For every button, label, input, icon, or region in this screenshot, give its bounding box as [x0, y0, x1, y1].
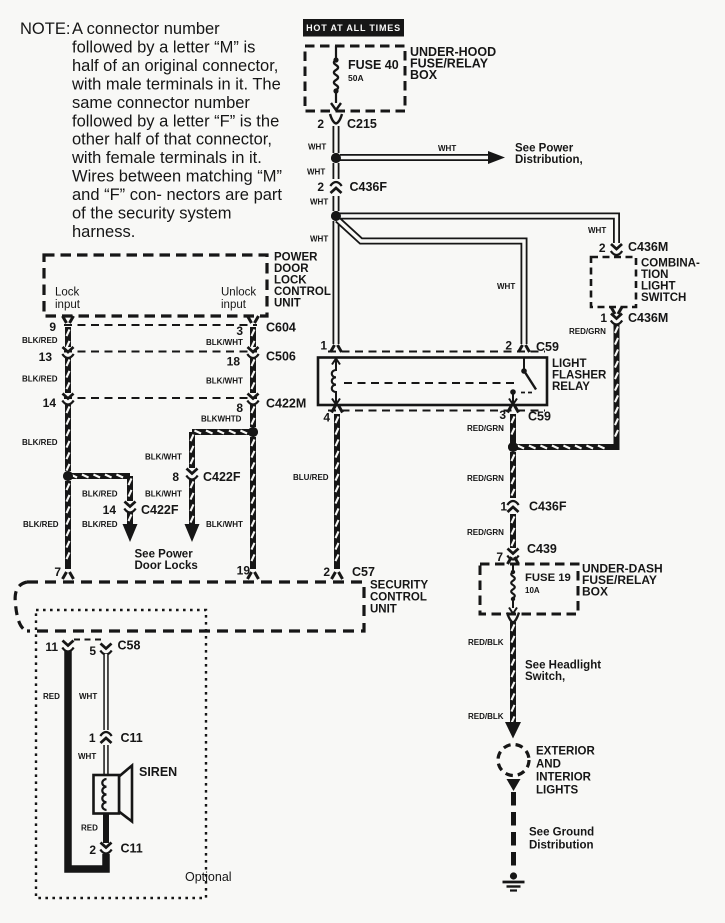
connector C422F (pin 14): [124, 502, 135, 513]
svg-text:C422M: C422M: [266, 397, 306, 411]
svg-text:half of an original connector,: half of an original connector,: [72, 57, 278, 75]
svg-text:10A: 10A: [525, 586, 540, 595]
connector row line C58: [74, 639, 101, 641]
svg-text:UNIT: UNIT: [274, 298, 301, 310]
see power door locks note: [135, 549, 198, 573]
svg-text:C436F: C436F: [350, 180, 388, 194]
svg-text:LIGHT: LIGHT: [552, 358, 587, 370]
svg-text:9: 9: [49, 320, 56, 334]
wire RED/GRN comb switch to junction: [513, 324, 618, 449]
exterior and interior lights name: [536, 746, 595, 797]
svg-text:RED/GRN: RED/GRN: [569, 327, 606, 336]
svg-text:Optional: Optional: [185, 870, 232, 884]
relay coil element: [332, 358, 340, 405]
under-hood fuse/relay box: [305, 46, 405, 111]
wire feet pin 19: [248, 572, 259, 579]
connector C436M (pin 1): [611, 314, 622, 325]
connector below under-dash box: [507, 613, 519, 623]
relay internal dashed link: [344, 382, 515, 384]
wire BLK/RED pin9 to pin13: [67, 327, 70, 348]
svg-text:and “F” con- nectors are part: and “F” con- nectors are part: [72, 186, 282, 204]
connector C506 right: [247, 347, 258, 358]
svg-text:RED: RED: [43, 692, 60, 701]
svg-text:LIGHTS: LIGHTS: [536, 785, 578, 797]
svg-text:2: 2: [505, 339, 512, 353]
svg-text:BLK/RED: BLK/RED: [22, 438, 58, 447]
note text block: [20, 20, 282, 241]
wire WHT to power distribution: [340, 154, 489, 161]
under-dash fuse/relay box: [480, 564, 578, 614]
svg-text:See Headlight: See Headlight: [525, 660, 601, 672]
svg-text:Distribution: Distribution: [529, 840, 594, 852]
svg-text:BLK/RED: BLK/RED: [22, 336, 58, 345]
svg-text:1: 1: [89, 731, 96, 745]
svg-text:BLK/WHT: BLK/WHT: [145, 453, 182, 462]
svg-text:BOX: BOX: [410, 68, 438, 82]
svg-text:C436M: C436M: [628, 240, 668, 254]
siren horn: [119, 766, 132, 822]
connector row line C506: [64, 351, 257, 353]
svg-text:POWER: POWER: [274, 252, 318, 264]
svg-text:UNIT: UNIT: [370, 604, 397, 616]
junction node RED/GRN: [508, 442, 518, 452]
connector row line C59 top: [328, 351, 545, 353]
svg-text:DOOR: DOOR: [274, 263, 309, 275]
svg-text:3: 3: [499, 408, 506, 422]
wire feet at flasher pin 1: [331, 345, 342, 352]
svg-text:with female terminals in it.: with female terminals in it.: [71, 149, 262, 167]
svg-text:BOX: BOX: [582, 585, 608, 599]
under-hood box name: [410, 45, 496, 82]
wire feet at flasher pin 2: [519, 345, 530, 352]
connector C215: [330, 114, 342, 124]
wire WHT C436F to junction 2: [333, 196, 340, 211]
connector C11 (pin 2): [100, 843, 111, 854]
svg-text:14: 14: [103, 503, 117, 517]
svg-text:WHT: WHT: [588, 226, 606, 235]
wire BLK/RED branch to C422F: [68, 475, 130, 478]
svg-text:2: 2: [89, 843, 96, 857]
svg-text:4: 4: [323, 411, 330, 425]
svg-text:CONTROL: CONTROL: [274, 286, 331, 298]
svg-text:C59: C59: [536, 340, 559, 354]
svg-text:C436F: C436F: [529, 500, 567, 514]
wire RED/GRN junction to C436F: [512, 452, 515, 498]
svg-text:harness.: harness.: [72, 223, 135, 241]
svg-text:C436M: C436M: [628, 311, 668, 325]
wire feet at comb switch pin 1: [611, 307, 622, 314]
svg-text:RED/GRN: RED/GRN: [467, 424, 504, 433]
hot at all times label box: [303, 19, 404, 37]
arrowhead below lights circle: [507, 779, 521, 791]
svg-text:2: 2: [317, 180, 324, 194]
svg-text:See Power: See Power: [515, 143, 574, 155]
connector C506 left: [62, 347, 73, 358]
svg-text:RED/GRN: RED/GRN: [467, 528, 504, 537]
svg-text:3: 3: [236, 324, 243, 338]
see headlight switch note: [525, 660, 601, 684]
junction node WHT lower overdraw: [331, 211, 341, 221]
connector C436F (RED/GRN): [507, 501, 518, 512]
svg-text:other half of that connector,: other half of that connector,: [72, 131, 272, 149]
svg-text:11: 11: [45, 640, 58, 654]
unlock input label: [221, 287, 256, 312]
svg-text:Switch,: Switch,: [525, 671, 565, 683]
svg-text:C604: C604: [266, 321, 296, 335]
svg-text:BLK/WHT: BLK/WHT: [206, 338, 243, 347]
wire feet pin 2 C57: [332, 572, 343, 579]
svg-text:with male terminals in it. The: with male terminals in it. The: [71, 75, 281, 93]
siren coil: [102, 779, 106, 810]
wire BLK/RED pin14 to junction: [67, 404, 70, 471]
svg-text:7: 7: [496, 550, 503, 564]
junction node WHT lower: [331, 211, 341, 221]
under-dash box name: [582, 562, 663, 599]
arrowhead to power door locks right: [185, 524, 200, 542]
svg-text:COMBINA-: COMBINA-: [641, 258, 700, 270]
wire RED siren to C11: [103, 813, 109, 843]
svg-text:BLK/RED: BLK/RED: [22, 375, 58, 384]
wire feet pin 9: [63, 316, 74, 323]
connector C422M left: [62, 394, 73, 405]
connector C422M right: [247, 394, 258, 405]
svg-text:2: 2: [323, 565, 330, 579]
see power distribution note: [515, 143, 583, 167]
combination light switch box: [591, 257, 636, 307]
arrowhead to exterior lights: [505, 722, 521, 739]
svg-text:INTERIOR: INTERIOR: [536, 772, 592, 784]
svg-text:LIGHT: LIGHT: [641, 281, 676, 293]
svg-text:LOCK: LOCK: [274, 275, 307, 287]
connector row line C604: [64, 324, 257, 326]
svg-text:BLKWHTD: BLKWHTD: [201, 415, 242, 424]
exterior and interior lights node: [498, 745, 529, 776]
junction node BLK/RED overdraw: [63, 471, 73, 481]
wire WHT to combination light switch: [336, 216, 617, 243]
junction node BLK/RED: [63, 471, 73, 481]
connector C422F (pin 8): [186, 469, 197, 480]
svg-text:RED/GRN: RED/GRN: [467, 474, 504, 483]
junction node BLK/WHT overdraw: [248, 427, 258, 437]
svg-text:Unlock: Unlock: [221, 287, 256, 299]
relay switch element: [509, 358, 536, 405]
svg-text:EXTERIOR: EXTERIOR: [536, 746, 595, 758]
wire feet pin 7: [63, 572, 74, 579]
wire BLK/WHT branch to C422F: [192, 431, 253, 434]
connector C436F (wire A): [330, 182, 341, 193]
svg-text:same connector number: same connector number: [72, 94, 250, 112]
connector C58 pin 11: [62, 641, 73, 652]
siren body: [94, 775, 120, 814]
wire BLU/RED pin4 to C57: [336, 414, 339, 569]
optional equipment dotted box: [36, 610, 206, 898]
svg-text:Door Locks: Door Locks: [135, 560, 198, 572]
combination light switch name: [641, 258, 700, 305]
lock input label: [55, 287, 81, 312]
svg-text:C439: C439: [527, 542, 557, 556]
svg-text:C422F: C422F: [203, 470, 241, 484]
svg-text:BLK/RED: BLK/RED: [23, 520, 59, 529]
security control unit box: [27, 582, 364, 631]
svg-text:C422F: C422F: [141, 503, 179, 517]
svg-text:SECURITY: SECURITY: [370, 580, 428, 592]
svg-text:C506: C506: [266, 350, 296, 364]
wire RED/GRN C436F to C439: [512, 514, 515, 548]
svg-text:5: 5: [89, 644, 96, 658]
wire to ground distribution: [511, 792, 516, 872]
security control unit box left hook: [15, 582, 27, 631]
wire BLK/WHT junction to pin19: [252, 437, 255, 569]
wire BLK/RED pin13 to pin14: [67, 357, 70, 393]
svg-text:WHT: WHT: [78, 752, 96, 761]
wire BLK/RED down to C422F: [129, 476, 132, 501]
svg-text:C58: C58: [118, 639, 141, 653]
svg-text:BLK/WHT: BLK/WHT: [206, 377, 243, 386]
power door lock control unit name: [274, 252, 331, 310]
svg-text:2: 2: [599, 241, 606, 255]
connector C436M (pin 2): [611, 244, 622, 255]
svg-text:See Ground: See Ground: [529, 827, 594, 839]
svg-text:See Power: See Power: [135, 549, 194, 561]
svg-text:SIREN: SIREN: [139, 765, 177, 779]
light flasher relay name: [552, 358, 607, 393]
svg-text:FLASHER: FLASHER: [552, 370, 607, 382]
wire feet pin 4: [332, 406, 343, 413]
svg-text:50A: 50A: [348, 73, 364, 83]
connector C11 (pin 1): [100, 732, 111, 743]
svg-text:SWITCH: SWITCH: [641, 292, 686, 304]
wire feet pin 3: [508, 406, 519, 413]
svg-text:14: 14: [43, 396, 57, 410]
svg-text:C215: C215: [347, 117, 377, 131]
svg-text:19: 19: [237, 564, 251, 578]
svg-text:WHT: WHT: [307, 168, 325, 177]
svg-text:Distribution,: Distribution,: [515, 154, 583, 166]
connector C439: [507, 549, 518, 560]
junction node WHT upper: [331, 153, 341, 163]
connector row line C422M: [64, 397, 257, 399]
arrowhead to power distribution: [488, 151, 505, 164]
svg-text:WHT: WHT: [308, 143, 326, 152]
wire WHT fuse to junction: [333, 126, 340, 153]
svg-text:FUSE 19: FUSE 19: [525, 572, 571, 584]
svg-text:C57: C57: [352, 565, 375, 579]
svg-text:Wires between matching “M”: Wires between matching “M”: [72, 168, 282, 186]
svg-text:input: input: [221, 299, 247, 311]
wire BLK/WHT down to C422F: [191, 432, 194, 468]
junction node WHT upper overdraw: [331, 153, 341, 163]
svg-text:AND: AND: [536, 759, 561, 771]
wire BLK/WHT pin3 to pin18: [252, 327, 255, 348]
svg-text:CONTROL: CONTROL: [370, 592, 427, 604]
light flasher relay box: [318, 358, 547, 406]
svg-text:RED/BLK: RED/BLK: [468, 638, 504, 647]
svg-text:1: 1: [500, 500, 507, 514]
wire feet into under-dash box: [508, 557, 519, 564]
wire BLK/WHT C422F to arrow: [191, 479, 194, 524]
wire WHT junction to flasher pin 2: [338, 220, 525, 345]
svg-text:WHT: WHT: [79, 692, 97, 701]
svg-text:A connector number: A connector number: [72, 20, 220, 38]
svg-text:WHT: WHT: [310, 198, 328, 207]
svg-text:RELAY: RELAY: [552, 381, 590, 393]
svg-text:input: input: [55, 299, 81, 311]
svg-text:TION: TION: [641, 269, 668, 281]
svg-text:Lock: Lock: [55, 287, 80, 299]
svg-text:HOT AT ALL TIMES: HOT AT ALL TIMES: [306, 23, 401, 33]
svg-text:BLU/RED: BLU/RED: [293, 473, 329, 482]
wire WHT junction to C436F: [333, 163, 340, 179]
wire BLK/RED junction to pin7: [67, 481, 70, 569]
svg-text:BLK/WHT: BLK/WHT: [206, 520, 243, 529]
see ground distribution note: [529, 827, 594, 852]
wire BLK/WHT pin18 to pin8: [252, 357, 255, 393]
svg-text:WHT: WHT: [438, 144, 456, 153]
wire WHT C11 to siren: [103, 745, 108, 775]
junction node RED/GRN overdraw: [508, 442, 518, 452]
connector C58 pin 5: [100, 644, 111, 655]
svg-text:1: 1: [320, 339, 327, 353]
svg-text:7: 7: [54, 565, 61, 579]
svg-text:BLK/RED: BLK/RED: [82, 490, 118, 499]
svg-text:18: 18: [227, 355, 241, 369]
svg-text:RED: RED: [81, 824, 98, 833]
svg-text:C11: C11: [121, 842, 143, 856]
wire BLK/WHT pin8 to junction: [252, 404, 255, 427]
svg-text:13: 13: [39, 350, 53, 364]
fuse F19 element: [509, 564, 517, 614]
ground symbol: [503, 872, 525, 890]
svg-text:WHT: WHT: [310, 235, 328, 244]
security control unit name: [370, 580, 428, 616]
connector row line C59 bottom: [328, 410, 545, 412]
power door lock control unit box: [44, 255, 267, 316]
svg-text:followed by a letter “F” is th: followed by a letter “F” is the: [72, 112, 279, 130]
svg-text:8: 8: [236, 401, 243, 415]
fuse F40 element: [331, 46, 341, 110]
wire feet pin 3: [248, 316, 259, 323]
svg-text:FUSE 40: FUSE 40: [348, 58, 399, 72]
wire RED siren loop: [68, 651, 106, 869]
arrowhead to power door locks left: [123, 524, 138, 542]
svg-text:of the security system: of the security system: [72, 205, 232, 223]
svg-text:WHT: WHT: [497, 282, 515, 291]
wire WHT junction to flasher pin 1: [333, 221, 340, 344]
wire BLK/RED C422F to arrow: [129, 512, 132, 524]
junction node BLK/WHT: [248, 427, 258, 437]
svg-text:BLK/WHT: BLK/WHT: [145, 490, 182, 499]
svg-text:1: 1: [600, 311, 607, 325]
svg-text:C59: C59: [528, 410, 551, 424]
svg-text:RED/BLK: RED/BLK: [468, 712, 504, 721]
svg-text:BLK/RED: BLK/RED: [82, 520, 118, 529]
svg-text:2: 2: [317, 117, 324, 131]
wire WHT pin5 to C11: [103, 654, 108, 730]
svg-text:8: 8: [172, 470, 179, 484]
svg-text:NOTE:: NOTE:: [20, 20, 70, 38]
svg-text:followed by a letter “M” is: followed by a letter “M” is: [72, 38, 255, 56]
wire RED/GRN pin3 to junction: [512, 414, 515, 443]
svg-text:C11: C11: [121, 731, 143, 745]
wire RED/BLK fuse19 to lights: [512, 622, 515, 723]
